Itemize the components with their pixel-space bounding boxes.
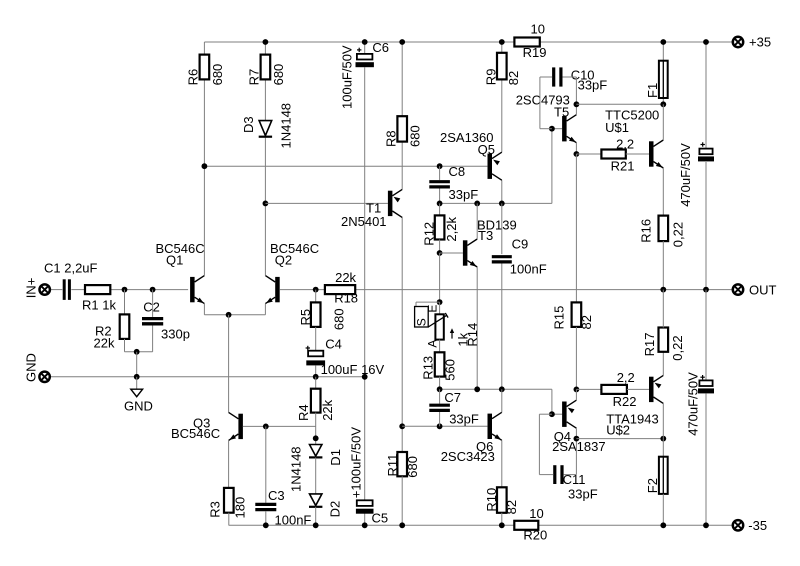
transistor Q1 BC546C — [156, 241, 205, 303]
junction C8 top — [437, 163, 443, 169]
junction R16 OUT — [660, 287, 666, 293]
svg-text:T3: T3 — [478, 228, 493, 243]
wire T5e to R15 — [575, 154, 577, 302]
svg-text:2SC3423: 2SC3423 — [441, 449, 495, 464]
resistor R17 0,22 — [642, 328, 685, 361]
svg-text:R19: R19 — [523, 45, 547, 60]
svg-text:A: A — [426, 340, 440, 348]
junction C5 rail — [362, 522, 368, 528]
wire Q1 collector — [203, 166, 205, 275]
svg-text:100nF: 100nF — [275, 513, 312, 528]
junction trimmer node — [437, 299, 443, 305]
resistor R20 10 — [514, 521, 538, 530]
resistor R19 10 — [514, 22, 546, 61]
svg-text:GND: GND — [24, 353, 39, 382]
svg-text:C5: C5 — [372, 511, 389, 526]
junction C3 rail — [263, 522, 269, 528]
resistor R21 2,2 — [601, 136, 634, 173]
wire GND rail — [50, 376, 365, 378]
wire C11 left loop — [539, 414, 553, 474]
svg-text:R5: R5 — [298, 309, 313, 326]
transistor U$2 TTA1943 — [606, 375, 663, 437]
svg-text:2,2: 2,2 — [617, 370, 635, 385]
resistor R4 22k — [296, 377, 335, 421]
junction C7 bottom — [437, 423, 443, 429]
svg-text:2N5401: 2N5401 — [341, 214, 387, 229]
wire Q6 base line — [402, 425, 487, 427]
wire trimmer to R13 — [439, 340, 441, 353]
svg-text:180: 180 — [233, 497, 248, 519]
wire Q2 emitter — [264, 304, 266, 315]
svg-text:680: 680 — [210, 64, 225, 86]
svg-text:+100uF/50V: +100uF/50V — [349, 427, 364, 499]
wire Q1 emitter — [204, 304, 265, 315]
svg-text:C3: C3 — [268, 488, 285, 503]
wire Q6 collector — [501, 389, 503, 412]
capacitor C11 33pF — [555, 465, 598, 501]
junction R11 rail — [399, 522, 405, 528]
svg-text:680: 680 — [271, 64, 286, 86]
wire T5 emitter — [575, 143, 577, 154]
svg-text:82: 82 — [506, 71, 521, 85]
junction R9 rail — [499, 39, 505, 45]
wire to R21 — [576, 153, 601, 155]
svg-text:C2: C2 — [143, 300, 160, 315]
terminal OUT — [733, 282, 777, 297]
svg-text:E: E — [426, 305, 440, 313]
svg-text:R11: R11 — [385, 454, 400, 477]
svg-text:C9: C9 — [512, 237, 529, 252]
junction T5 collector C10 — [574, 101, 580, 107]
junction R8 rail — [399, 39, 405, 45]
svg-text:22k: 22k — [94, 336, 115, 351]
svg-text:F1: F1 — [645, 83, 660, 98]
fuse F2 — [645, 457, 668, 494]
junction F1 rail — [660, 39, 666, 45]
capacitor C10 33pF — [554, 67, 608, 92]
wire C6-C5 decoupling column — [364, 42, 366, 525]
svg-text:100uF 16V: 100uF 16V — [321, 362, 385, 377]
junction R10 rail — [499, 522, 505, 528]
trimmer R14 1k — [415, 302, 481, 348]
wire Q3 emitter — [228, 440, 230, 488]
svg-text:C6: C6 — [372, 40, 389, 55]
wire U$1 collector — [662, 104, 664, 140]
wire 470uF upper branch — [705, 42, 707, 290]
wire U$2 emitter to R17 — [662, 352, 664, 376]
resistor R3 180 — [208, 488, 248, 519]
capacitor C6 100uF/50V — [340, 40, 390, 109]
svg-text:R12: R12 — [422, 222, 437, 246]
ground symbol — [124, 377, 153, 414]
wire U$1 emitter to R16 — [662, 168, 664, 216]
svg-text:Q2: Q2 — [275, 252, 292, 267]
svg-text:R16: R16 — [638, 219, 653, 243]
resistor R8 680 — [384, 116, 423, 147]
svg-text:R14: R14 — [465, 323, 480, 347]
wire Q4 emitter — [575, 389, 577, 400]
junction C3 top — [263, 424, 269, 430]
junction Q2 collector node — [263, 201, 269, 207]
svg-text:U$1: U$1 — [605, 120, 629, 135]
svg-text:Q5: Q5 — [478, 142, 495, 157]
svg-text:D2: D2 — [328, 501, 343, 518]
junction R1-R2 — [122, 287, 128, 293]
junction T5 base — [549, 126, 555, 132]
svg-text:C8: C8 — [449, 164, 466, 179]
wire to GND rail — [136, 352, 138, 377]
label T1 — [341, 201, 387, 230]
svg-text:10: 10 — [531, 22, 545, 37]
svg-text:-35: -35 — [748, 518, 767, 533]
resistor R12 2,2k — [422, 203, 459, 245]
svg-text:680: 680 — [331, 308, 346, 330]
diode D3 1N4148 — [241, 103, 293, 149]
svg-text:2,2: 2,2 — [616, 136, 634, 151]
junction Q1 collector R6 — [202, 163, 208, 169]
svg-text:R20: R20 — [523, 528, 547, 543]
junction tail — [226, 312, 232, 318]
wire Q6 emitter to R10 — [501, 440, 503, 487]
svg-text:R13: R13 — [420, 356, 435, 380]
svg-text:R4: R4 — [296, 404, 311, 421]
resistor R6 680 — [185, 55, 225, 86]
wire R10 to rail — [501, 513, 503, 526]
junction C9 bottom — [499, 386, 505, 392]
wire R3 to rail — [228, 513, 230, 526]
capacitor C2 330p — [142, 290, 190, 352]
wire R12 bottom — [439, 240, 441, 254]
wire C10 left loop — [540, 77, 552, 129]
svg-text:R1 1k: R1 1k — [82, 298, 116, 313]
capacitor C9 100nF — [492, 203, 547, 389]
svg-text:2SA1837: 2SA1837 — [552, 439, 606, 454]
wire -35 bottom rail — [229, 524, 733, 526]
wire R4 to D1 — [315, 413, 317, 445]
wire F2 to rail — [662, 494, 664, 525]
resistor R13 560 — [420, 352, 457, 380]
svg-text:U$2: U$2 — [606, 423, 630, 438]
diode D1 1N4148 — [309, 445, 343, 466]
svg-text:33pF: 33pF — [568, 487, 598, 502]
resistor R11 680 — [385, 426, 420, 525]
capacitor C8 33pF — [429, 164, 478, 203]
svg-text:R6: R6 — [185, 69, 200, 86]
fuse F1 — [645, 61, 668, 98]
wire T3 base — [440, 252, 463, 254]
junction F2 rail — [660, 522, 666, 528]
svg-text:S: S — [415, 318, 429, 326]
junction Q6 base R11 — [399, 423, 405, 429]
wire T5c to F1 — [576, 103, 663, 105]
junction 470u lower rail — [703, 522, 709, 528]
junction D1 top — [313, 435, 319, 441]
resistor R2 22k — [94, 290, 130, 352]
wire R22 to U$2 base — [627, 388, 649, 390]
wire R6 branch — [203, 42, 205, 166]
transistor U$1 TTC5200 — [605, 108, 663, 168]
wire Q4c to U$2c — [576, 438, 663, 440]
svg-text:680: 680 — [408, 125, 423, 147]
svg-text:R9: R9 — [484, 69, 499, 86]
svg-text:C7: C7 — [444, 390, 461, 405]
wire Q4 collector — [575, 428, 577, 438]
resistor R5 680 — [298, 290, 346, 331]
wire U$2 collector to F2 — [662, 403, 664, 456]
resistor R15 82 — [552, 302, 594, 329]
svg-text:33pF: 33pF — [578, 77, 608, 92]
terminal GND — [24, 353, 50, 382]
svg-text:1N4148: 1N4148 — [278, 103, 293, 149]
resistor R16 0,22 — [638, 216, 685, 248]
svg-text:0,22: 0,22 — [671, 222, 686, 247]
junction Q4 base — [549, 411, 555, 417]
svg-text:560: 560 — [443, 359, 458, 381]
svg-text:R10: R10 — [484, 488, 499, 512]
transistor T5 2SC4793 — [516, 92, 577, 142]
svg-text:R21: R21 — [611, 158, 635, 173]
resistor R9 82 — [484, 53, 521, 85]
wire OUT rail right — [355, 289, 732, 291]
svg-text:1N4148: 1N4148 — [289, 446, 304, 492]
wire R13 bottom — [439, 377, 441, 390]
wire wiper tie — [416, 302, 440, 306]
wire T3 emitter — [476, 267, 478, 389]
svg-text:F2: F2 — [645, 478, 660, 493]
label R20 — [523, 506, 547, 543]
junction F1 bottom — [660, 101, 666, 107]
wire to R22 — [576, 388, 601, 390]
terminal IN+ — [23, 278, 50, 299]
junction C6 GND rail — [362, 374, 368, 380]
wire Q2 collector — [264, 203, 266, 275]
svg-text:33pF: 33pF — [449, 187, 479, 202]
junction Q5 collector node — [499, 201, 505, 207]
svg-text:82: 82 — [579, 315, 594, 329]
junction C2 top — [150, 287, 156, 293]
wire Q3 base line — [243, 425, 316, 427]
terminal -35 — [733, 518, 767, 533]
svg-text:33pF: 33pF — [449, 412, 479, 427]
svg-text:100nF: 100nF — [510, 262, 547, 277]
junction C6 rail — [362, 39, 368, 45]
wire T3 collector — [476, 203, 478, 239]
svg-text:T5: T5 — [554, 105, 569, 120]
svg-text:0,22: 0,22 — [670, 335, 685, 360]
wire R2/C2 join — [125, 351, 153, 353]
junction R2C2 — [134, 349, 140, 355]
terminal +35 — [733, 35, 771, 50]
svg-text:R22: R22 — [613, 394, 637, 409]
junction T3 emitter bottom — [474, 386, 480, 392]
transistor Q5 2SA1360 — [440, 130, 502, 180]
wire T5 collector — [575, 104, 577, 114]
junction R5 top — [313, 287, 319, 293]
resistor R18 22k — [325, 270, 358, 305]
svg-text:+35: +35 — [749, 35, 771, 50]
resistor R1 1k — [82, 285, 116, 312]
wire Q2 base to R18 — [280, 289, 325, 291]
capacitor C1 2,2uF — [44, 261, 98, 300]
junction R13 bottom — [437, 386, 443, 392]
svg-text:100uF/50V: 100uF/50V — [340, 45, 355, 109]
junction T3 base node — [437, 250, 443, 256]
wire R17 to OUT — [662, 290, 664, 328]
svg-text:R17: R17 — [642, 333, 657, 357]
svg-text:10: 10 — [529, 506, 543, 521]
junction Q4 emitter node — [574, 387, 580, 393]
svg-text:2,2k: 2,2k — [444, 217, 459, 242]
svg-text:R7: R7 — [246, 69, 261, 86]
svg-text:D3: D3 — [241, 116, 256, 133]
junction U$2 collector node — [660, 436, 666, 442]
junction Q4 collector node — [574, 436, 580, 442]
transistor Q6 2SC3423 — [441, 412, 502, 464]
svg-text:22k: 22k — [320, 399, 335, 420]
capacitor C4 100uF 16V — [306, 327, 385, 377]
junction C4 GND rail — [313, 374, 319, 380]
svg-text:R15: R15 — [552, 306, 567, 330]
wire OUT rail input side — [50, 289, 188, 291]
wire C11 right loop — [564, 439, 577, 475]
svg-text:22k: 22k — [335, 270, 356, 285]
transistor Q4 2SA1837 — [552, 400, 606, 454]
capacitor 470uF/50V upper — [678, 142, 714, 207]
capacitor C3 100nF — [255, 426, 311, 527]
svg-text:R3: R3 — [208, 501, 223, 518]
wire R21 to U$1 base — [626, 153, 649, 155]
wire tail to Q3 collector — [228, 315, 230, 413]
wire C10 right — [563, 77, 577, 104]
diode D2 1N4148 — [289, 446, 343, 517]
wire D2 to rail — [315, 507, 317, 526]
capacitor C7 33pF — [429, 389, 479, 426]
junction 470u upper rail — [703, 39, 709, 45]
svg-text:D1: D1 — [328, 449, 343, 466]
transistor Q2 BC546C — [265, 241, 319, 304]
transistor T1 2N5401 — [388, 189, 402, 217]
capacitor C5 +100uF/50V — [349, 427, 388, 526]
junction GND rail — [134, 374, 140, 380]
wire R9/Q5 column — [501, 42, 503, 203]
wire VAS bus y203 — [440, 129, 552, 204]
svg-text:470uF/50V: 470uF/50V — [685, 372, 700, 436]
junction T3 collector node — [474, 201, 480, 207]
junction R7 rail — [263, 39, 269, 45]
svg-text:R8: R8 — [384, 130, 399, 147]
transistor T3 BD139 — [463, 218, 517, 267]
wire +35 supply rail — [204, 41, 732, 43]
wire R8/T1 column — [401, 42, 403, 426]
junction C8 bottom — [437, 201, 443, 207]
junction 470u upper OUT — [703, 287, 709, 293]
capacitor 470uF/50V lower — [685, 290, 714, 526]
resistor R22 2,2 — [601, 370, 636, 409]
wire T1 base line — [265, 202, 388, 204]
svg-text:Q1: Q1 — [166, 252, 183, 267]
svg-text:IN+: IN+ — [23, 278, 38, 299]
wire y389 bus — [440, 389, 552, 414]
wire R7/D3 branch — [264, 42, 266, 203]
svg-text:BC546C: BC546C — [171, 426, 220, 441]
svg-text:C1 2,2uF: C1 2,2uF — [44, 261, 98, 276]
svg-text:470uF/50V: 470uF/50V — [678, 143, 693, 207]
svg-text:OUT: OUT — [749, 282, 777, 297]
wire node bus y166 — [204, 165, 487, 167]
junction T5 emitter node — [574, 151, 580, 157]
resistor R7 680 — [246, 55, 286, 86]
svg-text:R18: R18 — [334, 290, 358, 305]
svg-text:680: 680 — [405, 456, 420, 478]
junction D2 rail — [313, 522, 319, 528]
svg-text:82: 82 — [504, 500, 519, 514]
wire T3base to trimmer — [439, 253, 441, 302]
svg-text:330p: 330p — [161, 327, 190, 342]
wire D1-D2 — [315, 457, 317, 494]
wire T5 base — [552, 128, 562, 130]
svg-text:C4: C4 — [325, 337, 342, 352]
wire R16 to OUT — [662, 241, 664, 290]
wire R15 to Q4e node — [575, 327, 577, 390]
transistor Q3 BC546C — [171, 412, 243, 440]
wire Q4 base — [552, 413, 562, 415]
wire F1 branch — [662, 42, 664, 104]
resistor R10 82 — [484, 487, 519, 514]
svg-text:GND: GND — [124, 399, 153, 414]
